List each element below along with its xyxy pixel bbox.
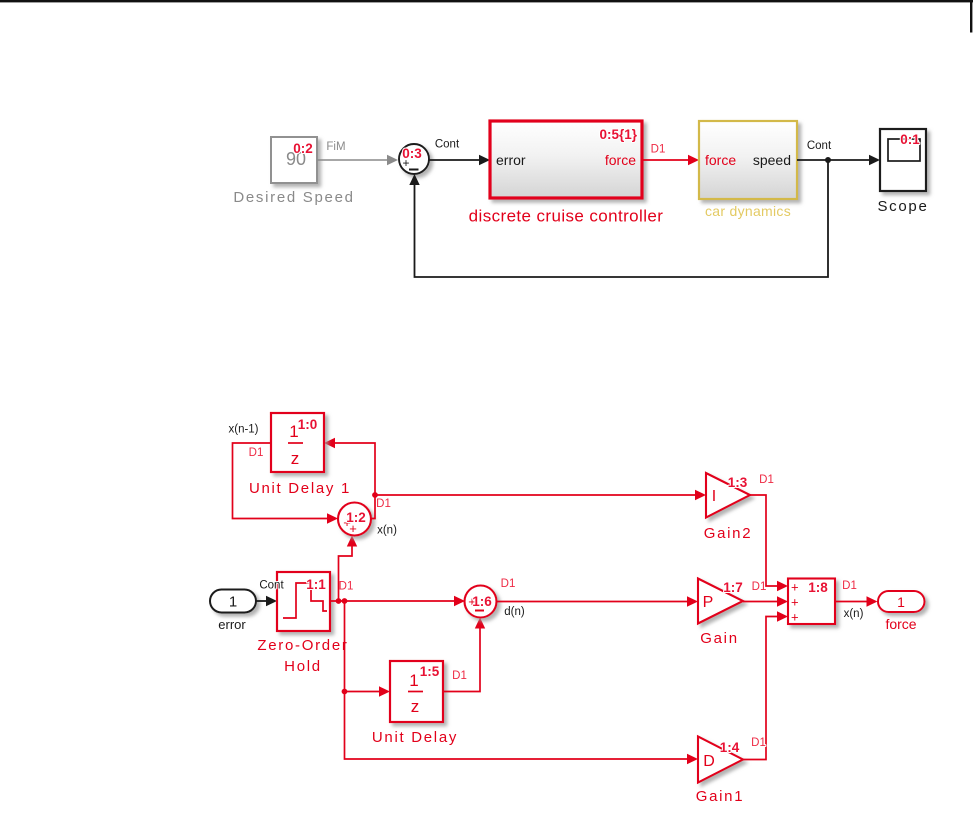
wire ZOH out to sum 1:6 (330, 596, 465, 606)
unit delay1 block 1:0 (271, 413, 324, 472)
svg-text:car dynamics: car dynamics (705, 203, 791, 219)
wire up branch to sum 1:2 (339, 536, 358, 602)
wire branch up to Unit Delay1 input (324, 438, 375, 495)
svg-text:D1: D1 (376, 498, 391, 510)
svg-text:I: I (712, 488, 716, 505)
svg-text:1:1: 1:1 (306, 577, 326, 592)
svg-text:D1: D1 (842, 580, 857, 592)
svg-text:D1: D1 (751, 737, 766, 749)
svg-text:0:2: 0:2 (293, 141, 313, 156)
wire constant to sum (FiM gray) (317, 155, 398, 165)
svg-text:FiM: FiM (326, 141, 345, 153)
svg-text:+: + (791, 610, 799, 625)
svg-text:D1: D1 (501, 578, 516, 590)
svg-text:Gain: Gain (700, 630, 739, 647)
wire inport to ZOH (256, 596, 277, 606)
junction node speed branch (825, 157, 831, 163)
svg-text:speed: speed (753, 152, 791, 168)
svg-text:error: error (496, 152, 526, 168)
subsystem car dynamics (699, 121, 797, 199)
scope block (880, 129, 926, 191)
svg-text:1:6: 1:6 (472, 594, 492, 609)
junction dot x(n) (372, 492, 378, 498)
wire to Unit Delay (345, 686, 391, 696)
constant block Desired Speed (90) (271, 137, 317, 183)
svg-text:Cont: Cont (259, 580, 284, 592)
sum block 1:6 (465, 586, 497, 618)
svg-text:0:1: 0:1 (900, 132, 920, 147)
svg-text:D1: D1 (651, 144, 666, 156)
signal labels D1 x(n) (842, 580, 863, 620)
wire sum 1:8 to outport (835, 596, 878, 606)
svg-text:error: error (218, 617, 246, 632)
outport 1 force (878, 591, 925, 612)
svg-text:1: 1 (409, 671, 418, 690)
sum 1:2 circle (338, 503, 371, 537)
svg-text:1:8: 1:8 (808, 580, 828, 595)
zero-order hold block (277, 572, 330, 631)
svg-text:1:0: 1:0 (298, 417, 318, 432)
svg-text:Desired Speed: Desired Speed (233, 189, 354, 206)
svg-text:D1: D1 (759, 474, 774, 486)
inport 1 error (210, 590, 256, 613)
svg-text:Gain1: Gain1 (696, 788, 745, 805)
svg-text:D1: D1 (452, 670, 467, 682)
svg-text:Hold: Hold (284, 658, 322, 675)
svg-text:D1: D1 (339, 581, 354, 593)
wire Unit Delay1 out to sum 1:2 (233, 443, 339, 524)
label Zero-Order Hold (257, 637, 348, 675)
svg-text:1: 1 (897, 594, 905, 610)
wire car dynamics to Scope (Cont) (797, 155, 880, 165)
wire controller to car dynamics (D1) (642, 155, 699, 165)
svg-text:0:5{1}: 0:5{1} (599, 127, 637, 142)
svg-text:force: force (705, 152, 736, 168)
svg-text:x(n): x(n) (377, 525, 397, 537)
wire sum 1:2 output up to junction and right to Gain2 (371, 490, 706, 519)
svg-text:D: D (703, 753, 715, 770)
svg-text:Cont: Cont (435, 139, 460, 151)
svg-text:Zero-Order: Zero-Order (257, 637, 348, 654)
svg-text:z: z (291, 449, 300, 468)
svg-text:1:5: 1:5 (420, 664, 440, 679)
svg-text:1:2: 1:2 (346, 510, 366, 525)
unit delay block 1:5 (390, 661, 443, 722)
svg-text:1:7: 1:7 (723, 580, 743, 595)
svg-text:+: + (791, 595, 799, 610)
gain block I (Gain2) (706, 473, 750, 518)
svg-text:1:3: 1:3 (728, 475, 748, 490)
subsystem discrete cruise controller (490, 121, 642, 198)
svg-text:+: + (791, 580, 799, 595)
svg-text:P: P (703, 594, 714, 611)
wire down branch to Gain1 (345, 601, 691, 759)
svg-text:Gain2: Gain2 (704, 525, 753, 542)
svg-text:discrete cruise controller: discrete cruise controller (469, 207, 664, 226)
wire sum 1:6 to Gain P (497, 596, 699, 606)
svg-text:1: 1 (229, 594, 237, 611)
svg-text:d(n): d(n) (504, 606, 525, 618)
gain block P (Gain) (698, 579, 743, 624)
svg-text:force: force (885, 616, 916, 632)
signal labels D1 d(n) (501, 578, 525, 618)
svg-text:force: force (605, 152, 636, 168)
svg-text:x(n): x(n) (844, 608, 864, 620)
wire sum to controller (Cont) (429, 155, 490, 165)
junction dot up-branch (336, 598, 342, 604)
feedback wire to sum bottom (409, 160, 828, 277)
wire Gain1 to sum 1:8 bottom input (743, 611, 788, 759)
gain block D (Gain1) (698, 737, 743, 783)
svg-text:D1: D1 (249, 447, 264, 459)
svg-text:D1: D1 (752, 581, 767, 593)
canvas right border segment (970, 0, 972, 33)
wire unit delay to sum 1:6 bottom (443, 618, 485, 692)
canvas top border (0, 0, 973, 2)
wire Gain2 to sum 1:8 top input (750, 495, 788, 591)
svg-text:0:3: 0:3 (402, 146, 422, 161)
svg-text:Unit Delay 1: Unit Delay 1 (249, 480, 351, 497)
svg-text:x(n-1): x(n-1) (228, 424, 258, 436)
svg-text:1:4: 1:4 (720, 740, 740, 755)
sum block 1:8 (788, 579, 835, 625)
svg-text:Cont: Cont (807, 140, 832, 152)
arrowhead into Gain1 (687, 754, 698, 764)
junction dot down-branch (342, 598, 348, 604)
junction dot unit delay branch (342, 689, 348, 695)
svg-text:Unit Delay: Unit Delay (372, 729, 458, 746)
svg-text:z: z (411, 697, 420, 716)
wire Gain to sum 1:8 (743, 596, 788, 606)
sum block 0:3 (399, 144, 429, 174)
svg-text:Scope: Scope (877, 198, 928, 215)
